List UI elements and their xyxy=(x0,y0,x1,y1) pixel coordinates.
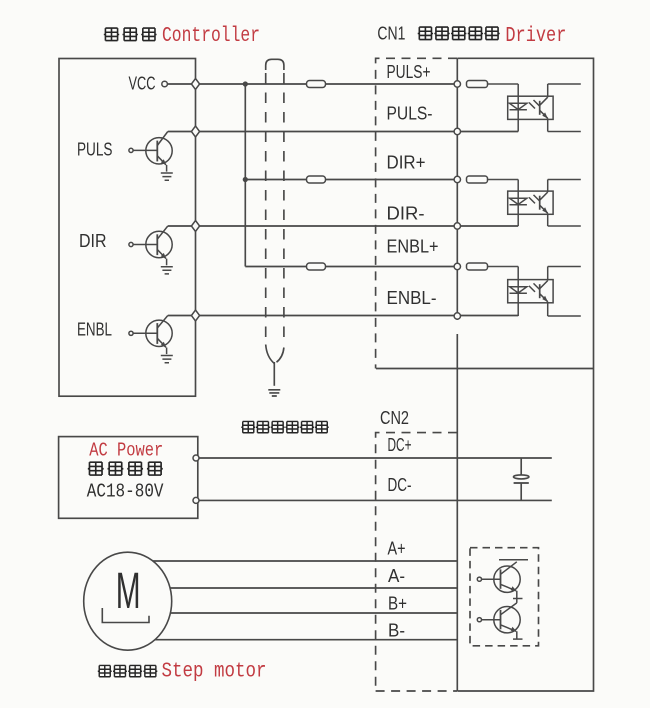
svg-text:AC Power: AC Power xyxy=(89,440,163,462)
motor bracket xyxy=(102,608,149,623)
svg-text:Driver: Driver xyxy=(505,25,566,48)
svg-text:ENBL+: ENBL+ xyxy=(387,237,439,257)
CN2 connector dashed box xyxy=(376,433,457,691)
optocoupler U1 xyxy=(508,84,581,132)
wire PULS collector to PULS- xyxy=(168,131,518,133)
CN1 pin ENBL+ xyxy=(454,263,460,269)
AC power box xyxy=(59,437,198,519)
branch vertical wire xyxy=(244,84,246,267)
cable bead PULS+ xyxy=(307,81,326,88)
optocoupler U2 xyxy=(508,180,581,227)
diamond pass-through DIR xyxy=(191,221,199,232)
resistor R2 xyxy=(467,176,519,183)
svg-text:DC-: DC- xyxy=(388,475,412,495)
svg-text:Controller: Controller xyxy=(162,25,260,48)
ground xyxy=(161,267,173,274)
wire B- xyxy=(155,639,457,641)
shield ground stem xyxy=(273,362,275,386)
VCC terminal xyxy=(162,81,168,87)
label 交流电源 xyxy=(88,462,104,475)
title 控制器 xyxy=(104,28,119,40)
AC power terminal 1 xyxy=(193,455,199,461)
svg-text:DIR+: DIR+ xyxy=(387,153,426,173)
transistor Q2 DIR xyxy=(129,226,172,265)
svg-text:ENBL: ENBL xyxy=(77,320,112,340)
wire VCC to PULS+ xyxy=(167,83,457,85)
transistor Q1 PULS xyxy=(129,132,172,172)
svg-text:B+: B+ xyxy=(388,594,407,614)
svg-text:VCC: VCC xyxy=(129,74,156,94)
output transistor Q4 xyxy=(477,560,528,599)
wire B+ xyxy=(170,612,457,614)
shield ground symbol xyxy=(268,390,280,396)
capacitor C1 stems xyxy=(520,458,522,500)
svg-text:A-: A- xyxy=(388,566,405,586)
svg-text:PULS: PULS xyxy=(77,140,113,160)
CN1 pin PULS+ xyxy=(454,81,460,87)
label 屏蔽线材接地 xyxy=(241,421,255,432)
svg-text:DC+: DC+ xyxy=(388,435,412,455)
resistor R1 xyxy=(467,81,519,88)
svg-text:B-: B- xyxy=(388,621,405,641)
svg-text:PULS-: PULS- xyxy=(387,104,433,124)
svg-text:ENBL-: ENBL- xyxy=(387,288,437,308)
ground xyxy=(161,173,173,180)
output stage dashed box xyxy=(470,548,539,646)
wire branch to ENBL+ xyxy=(245,266,457,268)
title 步进驱动器 xyxy=(418,27,433,39)
wire branch to DIR+ xyxy=(245,179,457,181)
motor circle xyxy=(84,552,172,650)
svg-text:PULS+: PULS+ xyxy=(387,62,431,82)
capacitor C1 plates xyxy=(514,475,529,479)
wire A+ xyxy=(153,560,457,562)
junction dot DIR+ branch xyxy=(243,177,248,182)
svg-text:DIR-: DIR- xyxy=(387,204,425,224)
diamond pass-through ENBL xyxy=(191,310,199,321)
CN1 connector dashed box xyxy=(376,58,457,368)
driver box outline xyxy=(457,58,593,691)
output transistor Q5 xyxy=(477,599,522,640)
svg-text:Step motor: Step motor xyxy=(162,660,267,683)
wire ENBL collector to ENBL- xyxy=(168,315,518,317)
svg-text:CN2: CN2 xyxy=(380,408,409,428)
svg-text:A+: A+ xyxy=(388,539,406,559)
driver section separator xyxy=(376,368,594,370)
shield stadium dashed xyxy=(266,59,284,70)
controller box xyxy=(59,59,196,397)
ground xyxy=(161,356,173,363)
CN1 pin DIR- xyxy=(454,223,460,229)
CN1 pin DIR+ xyxy=(454,176,460,182)
svg-text:M: M xyxy=(116,562,141,619)
diamond pass-through VCC xyxy=(191,79,199,90)
wire DC+ xyxy=(199,457,552,459)
CN1 pin PULS- xyxy=(454,128,460,134)
wire DIR collector to DIR- xyxy=(168,225,518,227)
svg-text:CN1: CN1 xyxy=(377,24,405,44)
AC power terminal 2 xyxy=(193,497,199,503)
optocoupler U3 xyxy=(508,267,581,317)
wire A- xyxy=(170,587,457,589)
resistor R3 xyxy=(467,263,519,270)
svg-text:AC18-80V: AC18-80V xyxy=(87,481,164,503)
junction dot VCC branch xyxy=(243,81,248,86)
cable bead ENBL+ xyxy=(307,263,326,270)
CN1 pin ENBL- xyxy=(454,313,460,319)
svg-text:DIR: DIR xyxy=(79,231,107,251)
cable bead DIR+ xyxy=(307,176,326,183)
diamond pass-through PULS xyxy=(191,126,199,137)
transistor Q3 ENBL xyxy=(129,316,172,355)
label 步进电机 xyxy=(98,665,112,676)
wire DC- xyxy=(199,499,552,501)
driver CN1 pin bus xyxy=(456,58,458,691)
